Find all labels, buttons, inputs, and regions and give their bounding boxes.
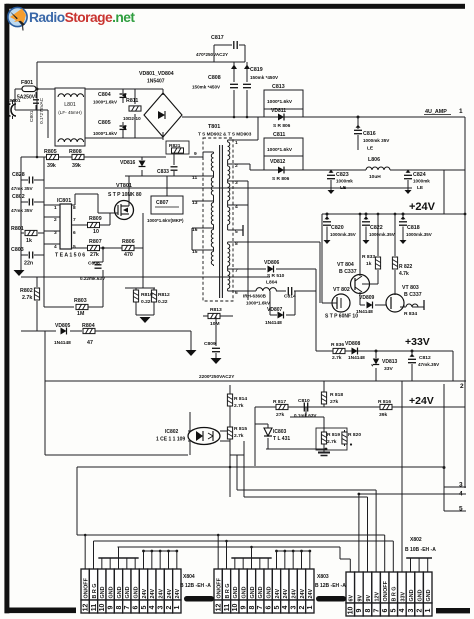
svg-text:C819: C819 (250, 67, 263, 73)
svg-text:R 820: R 820 (348, 432, 361, 438)
svg-text:B R G: B R G (392, 587, 398, 602)
svg-text:C812: C812 (419, 355, 431, 361)
svg-text:10M: 10M (210, 321, 220, 327)
svg-text:1000*1.6kV: 1000*1.6kV (267, 99, 293, 105)
svg-text:R 819: R 819 (327, 432, 340, 438)
svg-text:47mk.35V: 47mk.35V (418, 362, 440, 367)
svg-text:RadioStorage.net: RadioStorage.net (29, 10, 135, 25)
svg-text:C820: C820 (331, 225, 344, 231)
svg-text:150mk *450V: 150mk *450V (192, 85, 221, 90)
svg-text:1: 1 (54, 205, 57, 211)
svg-text:R 836: R 836 (331, 342, 344, 348)
svg-text:R 815: R 815 (234, 426, 247, 432)
svg-text:C805: C805 (98, 120, 111, 126)
svg-text:1000mk 35V: 1000mk 35V (363, 138, 390, 143)
svg-text:10: 10 (99, 604, 106, 612)
svg-text:5: 5 (459, 506, 463, 513)
svg-text:R809: R809 (89, 216, 102, 222)
svg-text:6: 6 (132, 605, 139, 609)
svg-text:X804: X804 (183, 574, 195, 580)
svg-text:8: 8 (249, 605, 256, 609)
svg-text:6: 6 (265, 605, 272, 609)
svg-text:IRH-6360B: IRH-6360B (243, 294, 267, 299)
svg-text:VD801_VD804: VD801_VD804 (139, 71, 174, 77)
svg-text:VD805: VD805 (55, 323, 71, 329)
svg-text:C817: C817 (211, 35, 224, 41)
svg-text:1000mk: 1000mk (336, 179, 353, 184)
svg-text:R807: R807 (89, 239, 102, 245)
svg-text:7: 7 (73, 217, 76, 223)
svg-text:S R 806: S R 806 (272, 176, 290, 182)
svg-text:X802: X802 (410, 537, 422, 543)
svg-text:1 CE 1 1 109: 1 CE 1 1 109 (156, 437, 185, 443)
svg-text:1k: 1k (366, 261, 372, 267)
svg-text:12: 12 (215, 604, 222, 612)
svg-text:VD808: VD808 (345, 341, 361, 347)
svg-text:C833: C833 (157, 169, 169, 175)
svg-text:VT 802: VT 802 (333, 287, 350, 293)
svg-text:12V: 12V (375, 592, 381, 602)
svg-text:2.7k: 2.7k (332, 355, 342, 361)
svg-text:R804: R804 (82, 323, 95, 329)
svg-text:C823: C823 (336, 172, 349, 178)
svg-text:1000*1.6kV: 1000*1.6kV (93, 131, 118, 136)
svg-text:B C337: B C337 (404, 292, 422, 298)
svg-text:39k: 39k (72, 163, 81, 169)
svg-text:ON/OFF: ON/OFF (383, 580, 389, 601)
svg-text:2: 2 (166, 605, 173, 609)
svg-text:10: 10 (232, 604, 239, 612)
svg-text:0.22mk.63V: 0.22mk.63V (80, 276, 106, 281)
svg-text:R 834: R 834 (404, 311, 417, 317)
svg-text:C809: C809 (204, 341, 216, 347)
svg-text:47mk 35V: 47mk 35V (11, 186, 34, 191)
svg-text:1N4148: 1N4148 (265, 320, 282, 326)
svg-text:1000*1.6kV: 1000*1.6kV (267, 147, 293, 153)
svg-text:L801: L801 (64, 102, 76, 108)
svg-text:0.1*275VAC: 0.1*275VAC (39, 97, 45, 124)
svg-text:2.7k: 2.7k (327, 439, 337, 445)
svg-text:C818: C818 (407, 225, 420, 231)
svg-text:L806: L806 (368, 157, 380, 163)
svg-text:R 833: R 833 (362, 254, 375, 260)
svg-text:R812: R812 (158, 292, 170, 298)
svg-text:C810: C810 (298, 398, 310, 404)
svg-text:VD809: VD809 (359, 295, 375, 301)
svg-text:470: 470 (124, 252, 133, 258)
svg-text:C814: C814 (284, 294, 296, 300)
svg-text:0.22: 0.22 (158, 299, 168, 305)
svg-text:2: 2 (460, 383, 464, 390)
svg-text:4: 4 (54, 244, 57, 250)
svg-text:1: 1 (425, 608, 432, 612)
svg-text:VD812: VD812 (270, 159, 286, 165)
svg-text:C808: C808 (208, 75, 221, 81)
svg-text:33V: 33V (400, 592, 406, 602)
svg-text:1: 1 (235, 140, 238, 146)
svg-text:VT 804: VT 804 (337, 262, 354, 268)
svg-text:2: 2 (299, 605, 306, 609)
svg-text:C816: C816 (363, 131, 376, 137)
svg-text:R805: R805 (44, 149, 57, 155)
svg-text:5A250V: 5A250V (17, 95, 36, 101)
svg-text:9: 9 (356, 608, 363, 612)
svg-text:R 822: R 822 (399, 264, 413, 270)
svg-text:5: 5 (274, 605, 281, 609)
svg-text:4: 4 (282, 605, 289, 609)
svg-text:GND: GND (426, 589, 432, 601)
svg-text:27k: 27k (330, 399, 338, 405)
svg-text:12: 12 (82, 604, 89, 612)
svg-text:T801: T801 (208, 124, 220, 130)
svg-text:R811: R811 (126, 98, 138, 104)
svg-text:1: 1 (459, 108, 463, 115)
svg-text:R 817: R 817 (273, 399, 286, 405)
svg-text:33V: 33V (384, 366, 393, 372)
svg-text:L804: L804 (266, 280, 277, 286)
svg-text:11: 11 (224, 604, 231, 612)
svg-text:6: 6 (73, 230, 76, 236)
svg-text:C801: C801 (29, 110, 35, 122)
svg-text:(LF- 45mH): (LF- 45mH) (58, 110, 82, 115)
svg-text:C804: C804 (98, 92, 111, 98)
svg-text:4: 4 (459, 491, 463, 498)
svg-text:1000*1.6kV: 1000*1.6kV (246, 301, 271, 306)
svg-text:S T P 60NF 10: S T P 60NF 10 (325, 314, 358, 320)
svg-text:1000mk.35V: 1000mk.35V (406, 232, 432, 237)
svg-text:3: 3 (157, 605, 164, 609)
svg-text:13: 13 (192, 200, 198, 206)
svg-text:16: 16 (192, 227, 198, 233)
svg-text:10uH: 10uH (369, 174, 381, 180)
svg-text:27k: 27k (276, 412, 284, 418)
svg-text:8: 8 (365, 608, 372, 612)
svg-text:LE: LE (417, 185, 424, 191)
svg-text:C806: C806 (88, 261, 100, 267)
svg-text:VD816: VD816 (120, 160, 136, 166)
svg-text:9: 9 (194, 151, 197, 157)
svg-text:VD811: VD811 (271, 108, 286, 114)
svg-text:C828: C828 (12, 172, 25, 178)
svg-text:B 12B -EH -A: B 12B -EH -A (315, 583, 346, 589)
svg-text:R808: R808 (69, 149, 82, 155)
svg-text:LE: LE (367, 146, 374, 152)
svg-text:1M: 1M (77, 311, 85, 317)
svg-text:B C337: B C337 (339, 269, 357, 275)
svg-text:8: 8 (116, 605, 123, 609)
svg-text:4.7k: 4.7k (399, 271, 409, 277)
svg-text:C803: C803 (11, 247, 24, 253)
svg-text:1N4148: 1N4148 (54, 340, 71, 346)
svg-text:2.7k: 2.7k (22, 295, 32, 301)
svg-text:2: 2 (416, 608, 423, 612)
svg-text:2.7k: 2.7k (234, 433, 244, 439)
svg-text:B 10B -EH -A: B 10B -EH -A (405, 547, 436, 553)
svg-text:9V: 9V (366, 595, 372, 602)
svg-text:24V: 24V (175, 589, 181, 599)
svg-text:3: 3 (408, 608, 415, 612)
svg-text:S T P 10NK 80: S T P 10NK 80 (108, 192, 142, 198)
svg-text:+33V: +33V (405, 336, 430, 348)
svg-text:GND: GND (418, 589, 424, 601)
svg-text:C822: C822 (370, 225, 383, 231)
svg-text:39k: 39k (379, 412, 387, 418)
svg-text:R 814: R 814 (234, 396, 247, 402)
svg-text:3: 3 (290, 605, 297, 609)
svg-text:S R 806: S R 806 (273, 123, 291, 129)
svg-text:5: 5 (391, 608, 398, 612)
svg-text:C811: C811 (273, 132, 285, 138)
svg-text:1000*1.6kV: 1000*1.6kV (93, 100, 118, 105)
svg-text:10: 10 (93, 229, 99, 235)
svg-text:9: 9 (107, 605, 114, 609)
svg-text:T L 431: T L 431 (273, 436, 290, 442)
svg-text:IC801: IC801 (57, 198, 71, 204)
svg-text:9: 9 (240, 605, 247, 609)
svg-text:T E A 1 5 0 6: T E A 1 5 0 6 (55, 253, 85, 259)
svg-text:6V: 6V (349, 595, 355, 602)
svg-text:B 12B -EH -A: B 12B -EH -A (180, 583, 211, 589)
svg-text:1000mk: 1000mk (413, 179, 430, 184)
svg-text:10: 10 (348, 607, 355, 615)
svg-text:IC802: IC802 (165, 429, 179, 435)
svg-text:+24V: +24V (409, 201, 436, 213)
svg-text:1000*1.6kV(MKP): 1000*1.6kV(MKP) (147, 218, 184, 223)
svg-text:150mk *450V: 150mk *450V (250, 75, 279, 80)
svg-text:47mk 35V: 47mk 35V (11, 208, 34, 213)
svg-text:R810: R810 (141, 292, 153, 298)
svg-text:22n: 22n (24, 261, 33, 267)
svg-text:1000mk.35V: 1000mk.35V (330, 232, 356, 237)
svg-text:VT 803: VT 803 (402, 285, 419, 291)
svg-text:IC803: IC803 (273, 429, 287, 435)
svg-text:R 816: R 816 (378, 399, 391, 405)
svg-text:X803: X803 (317, 574, 329, 580)
svg-text:6: 6 (382, 608, 389, 612)
svg-text:11: 11 (91, 604, 98, 612)
svg-text:2200*250VAC2Y: 2200*250VAC2Y (199, 374, 235, 379)
svg-text:C813: C813 (272, 84, 285, 90)
svg-text:R801: R801 (11, 226, 24, 232)
svg-text:VD813: VD813 (382, 359, 398, 365)
svg-text:R 818: R 818 (330, 392, 343, 398)
svg-text:0.22: 0.22 (141, 299, 151, 305)
svg-text:GND: GND (409, 589, 415, 601)
svg-text:47: 47 (87, 340, 93, 346)
svg-text:1000mk.35V: 1000mk.35V (369, 232, 395, 237)
svg-text:9V: 9V (357, 595, 363, 602)
svg-text:1: 1 (174, 605, 181, 609)
svg-text:+24V: +24V (409, 395, 434, 407)
svg-text:1k: 1k (26, 238, 32, 244)
svg-text:3: 3 (459, 482, 463, 489)
svg-text:39k: 39k (47, 163, 56, 169)
svg-text:VD807: VD807 (267, 307, 283, 313)
svg-text:C807: C807 (156, 200, 169, 206)
svg-text:470*250VAC2Y: 470*250VAC2Y (196, 52, 228, 57)
svg-text:2: 2 (54, 217, 57, 223)
svg-text:R802: R802 (20, 288, 33, 294)
svg-text:7: 7 (124, 605, 131, 609)
svg-text:7: 7 (257, 605, 264, 609)
svg-text:R806: R806 (122, 239, 135, 245)
svg-text:7: 7 (373, 608, 380, 612)
svg-text:R813: R813 (210, 307, 222, 313)
svg-text:F801: F801 (21, 80, 33, 86)
svg-text:C824: C824 (413, 172, 426, 178)
svg-text:VD806: VD806 (264, 260, 280, 266)
svg-text:24V: 24V (308, 589, 314, 599)
svg-text:1N4148: 1N4148 (356, 309, 373, 315)
svg-text:5: 5 (141, 605, 148, 609)
svg-text:C802: C802 (12, 194, 25, 200)
svg-text:4: 4 (399, 608, 406, 612)
svg-text:5: 5 (73, 244, 76, 250)
svg-text:27k: 27k (90, 252, 99, 258)
svg-text:11: 11 (192, 175, 197, 181)
svg-text:1N5407: 1N5407 (147, 79, 165, 85)
svg-text:S R 510: S R 510 (267, 273, 285, 279)
svg-text:2.7k: 2.7k (234, 403, 244, 409)
svg-text:R803: R803 (74, 298, 87, 304)
svg-text:1: 1 (307, 605, 314, 609)
svg-text:1N4148: 1N4148 (348, 355, 365, 361)
svg-text:15: 15 (192, 249, 198, 255)
svg-text:8: 8 (73, 205, 76, 211)
svg-text:10D2-10: 10D2-10 (123, 116, 141, 121)
svg-text:T S MD902 & T S MD903: T S MD902 & T S MD903 (198, 132, 252, 137)
svg-text:4: 4 (149, 605, 156, 609)
